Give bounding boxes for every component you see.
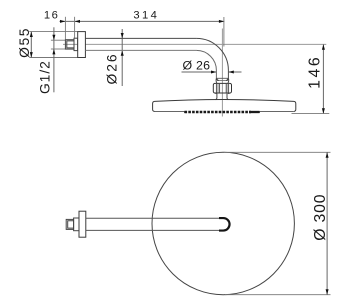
arrowhead dim Ø300 top: [326, 152, 329, 157]
arrowhead dim Ø26 bottom: [121, 50, 124, 55]
svg-text:G1/2: G1/2: [38, 60, 53, 94]
arrowhead dim Ø300 bottom: [326, 289, 329, 294]
svg-text:Ø26: Ø26: [104, 52, 119, 84]
nut facet shading left: [216, 84, 220, 93]
head bottom rim line left: [155, 111, 185, 113]
nut facet line 4: [228, 84, 230, 93]
arrowhead at tube left edge: [211, 71, 216, 74]
svg-text:314: 314: [133, 10, 159, 22]
ball joint left corner fillet: [217, 79, 219, 81]
collar between nipple and wall plate, side view: [74, 38, 78, 50]
ball joint right side: [227, 78, 230, 83]
shower head disc Ø300, plan view: [152, 152, 294, 294]
wall nipple G1/2 thread, side view: [65, 40, 74, 49]
arrowhead G1/2 bottom: [52, 49, 55, 54]
extension line dim 16 left: [64, 17, 66, 40]
svg-text:Ø 300: Ø 300: [312, 194, 329, 241]
arrowhead dim 146 bottom: [322, 108, 325, 113]
dimension line Ø55: [30, 32, 32, 58]
arrowhead at left extension of dim 16: [60, 20, 65, 23]
sprayface step left: [184, 112, 186, 113]
ball joint mid seam: [217, 79, 228, 81]
dimension line 146: [322, 44, 324, 113]
connector neck right with base flare: [227, 94, 228, 100]
centerline of horizontal arm (also serves as top extension line of dim 146): [63, 43, 326, 45]
extension line dim 16 right: [74, 17, 76, 38]
nipple thread relief detail, side view: [67, 41, 74, 48]
arrowhead shared by dim 16 right / dim 314 left: [75, 20, 80, 23]
svg-text:146: 146: [307, 55, 324, 89]
svg-text:Ø 26: Ø 26: [183, 58, 211, 72]
arrowhead at right end of dim 314: [219, 20, 224, 23]
svg-text:Ø55: Ø55: [17, 27, 32, 58]
dimension line Ø300: [326, 152, 328, 294]
extension tick G1/2 bottom: [51, 48, 66, 50]
sprayface step right: [259, 112, 261, 113]
nut facet line 1: [215, 84, 217, 93]
sprayface nozzle band (dotted): [185, 111, 252, 114]
arrowhead dim Ø55 bottom: [30, 52, 33, 57]
arrowhead dim Ø55 top: [30, 32, 33, 37]
swivel nut body: [213, 83, 231, 93]
collar between nipple and wall plate, plan view: [74, 218, 79, 231]
shower head disc outline, side view: [153, 100, 296, 112]
leader line for thread G1/2: [53, 27, 55, 92]
dimension line Ø26 at drop tube, left part: [182, 71, 217, 73]
arm tube top line, side view: [85, 37, 196, 39]
arm tube bottom line, side view: [85, 49, 196, 51]
arm tube top line, plan view: [86, 217, 220, 219]
dimension line Ø26 across arm: [121, 29, 123, 86]
nipple thread relief detail, plan view: [68, 221, 74, 228]
ball joint right corner fillet: [226, 79, 228, 81]
wall plate escutcheon Ø55, plan view: [79, 211, 86, 237]
connector neck left with base flare: [216, 94, 217, 100]
dimension line shared by dims 16 and 314: [60, 20, 225, 22]
dimension line Ø26 at drop tube, right tail: [228, 71, 241, 73]
elbow inner arc and tube left edge: [196, 50, 216, 78]
head bottom rim line right: [260, 111, 294, 113]
svg-text:16: 16: [44, 10, 60, 22]
extension line dim Ø300 top: [224, 151, 331, 153]
arrowhead at tube right edge: [228, 71, 233, 74]
extension line dim Ø55 bottom: [29, 57, 77, 59]
arrowhead G1/2 top: [52, 35, 55, 40]
extension tick G1/2 top: [51, 39, 66, 41]
nut facet line 2: [219, 84, 221, 93]
extension line dim 314 right: [223, 17, 225, 47]
extension line dim Ø300 bottom: [225, 294, 331, 296]
nut lower shoulder left: [214, 92, 217, 95]
wall plate escutcheon Ø55, side view: [78, 32, 86, 58]
wall nipple G1/2 thread, plan view: [66, 219, 73, 229]
extension line dim Ø55 top: [29, 31, 77, 33]
nut lower shoulder right: [228, 92, 231, 95]
arm tube bottom line, plan view: [86, 229, 220, 231]
nut facet line 3: [225, 84, 227, 93]
ball joint top seam: [216, 77, 228, 79]
arm rounded end cap at head centre, plan view: [219, 218, 230, 231]
elbow outer arc and tube right edge: [196, 38, 228, 78]
centerline of vertical drop tube through shower head: [221, 29, 223, 117]
ball joint left side: [215, 78, 218, 83]
arrowhead dim 146 top: [322, 44, 325, 49]
extension line dim 146 bottom: [292, 113, 330, 115]
nut facet shading right: [226, 84, 229, 93]
arrowhead dim Ø26 top: [121, 33, 124, 38]
sprayface band solid right end: [249, 111, 260, 113]
